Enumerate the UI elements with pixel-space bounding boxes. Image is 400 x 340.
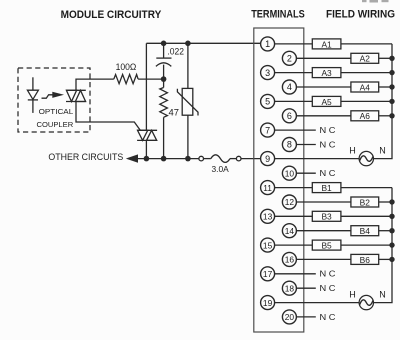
wire box B4 to field bus B bbox=[379, 230, 392, 232]
wire terminal 2 to box A2 bbox=[296, 57, 351, 59]
optical coupler dashed box bbox=[18, 68, 90, 132]
svg-text:13: 13 bbox=[263, 212, 273, 222]
wire top rail: left corner to terminal 1 bbox=[146, 42, 260, 44]
svg-text:6: 6 bbox=[287, 111, 292, 121]
svg-text:3: 3 bbox=[265, 68, 270, 78]
wire terminal 8 N.C. stub bbox=[296, 144, 316, 146]
node: bus A at A4 bbox=[389, 84, 394, 89]
terminal 13 bbox=[261, 209, 275, 223]
wire triac Q2 to bottom rail bbox=[145, 140, 147, 158]
terminal 15 bbox=[261, 238, 275, 252]
svg-text:N C: N C bbox=[320, 126, 336, 135]
cropped text fragment top right bbox=[362, 0, 389, 3]
wire box B3 to field bus B bbox=[341, 215, 392, 217]
terminal 16 bbox=[282, 252, 296, 266]
wire box A5 to field bus A bbox=[341, 100, 392, 102]
LED D1 (input diode of optical coupler) bbox=[27, 77, 38, 113]
box B6 bbox=[351, 254, 379, 264]
wire bottom rail bbox=[138, 158, 199, 160]
capacitor C1 .022 bbox=[156, 43, 172, 79]
wire Q1 bottom to triac Q2 gate bbox=[76, 102, 140, 131]
terminal 10 bbox=[282, 166, 296, 180]
terminal 3 bbox=[261, 66, 275, 80]
wire terminal 7 N.C. stub bbox=[275, 129, 316, 131]
wire left vertical: top rail down to triac Q2 bbox=[145, 43, 147, 130]
svg-text:B5: B5 bbox=[321, 241, 332, 251]
svg-text:3.0A: 3.0A bbox=[212, 165, 230, 174]
svg-text:18: 18 bbox=[285, 283, 295, 293]
svg-text:COUPLER: COUPLER bbox=[37, 120, 74, 129]
svg-text:15: 15 bbox=[263, 240, 273, 250]
svg-text:A3: A3 bbox=[321, 68, 332, 78]
svg-text:47: 47 bbox=[169, 106, 179, 117]
svg-text:8: 8 bbox=[287, 140, 292, 150]
terminal 19 bbox=[261, 296, 275, 310]
svg-text:N: N bbox=[379, 290, 386, 300]
field bus A vertical bbox=[374, 44, 393, 159]
wire box A3 to field bus A bbox=[341, 72, 392, 74]
svg-text:9: 9 bbox=[265, 154, 270, 164]
svg-text:2: 2 bbox=[287, 54, 292, 64]
svg-text:B4: B4 bbox=[360, 226, 371, 236]
wire terminal 16 to box B6 bbox=[296, 258, 351, 260]
box A4 bbox=[351, 82, 379, 92]
svg-text:N C: N C bbox=[320, 169, 336, 178]
wire box A2 to field bus A bbox=[379, 57, 392, 59]
box B2 bbox=[351, 197, 379, 207]
svg-text:A6: A6 bbox=[360, 111, 371, 121]
terminal 11 bbox=[261, 181, 275, 195]
node: bus A at A3 bbox=[389, 70, 394, 75]
svg-text:12: 12 bbox=[285, 197, 295, 207]
svg-text:7: 7 bbox=[265, 125, 270, 135]
box A6 bbox=[351, 111, 379, 121]
wire terminal 19 to AC source B bbox=[275, 302, 360, 304]
light emission arrow bbox=[42, 92, 65, 98]
svg-text:14: 14 bbox=[285, 226, 295, 236]
wire terminal 9 to AC source A bbox=[275, 158, 360, 160]
terminal 18 bbox=[282, 281, 296, 295]
node: junction C1 top on rail bbox=[161, 41, 167, 47]
svg-text:MODULE CIRCUITRY: MODULE CIRCUITRY bbox=[61, 9, 162, 21]
node: junction C1/R1/R2 bbox=[161, 76, 167, 82]
terminal 1 bbox=[261, 37, 275, 51]
resistor R1 100 ohm bbox=[114, 75, 138, 84]
wire terminal 12 to box B2 bbox=[296, 201, 351, 203]
svg-text:B6: B6 bbox=[360, 255, 371, 265]
wire box B1 to field bus B bbox=[341, 187, 392, 189]
wire terminal 1 to box A1 bbox=[275, 43, 313, 45]
box B4 bbox=[351, 226, 379, 236]
terminal block outline bbox=[254, 28, 304, 332]
svg-text:H: H bbox=[349, 290, 356, 300]
svg-text:TERMINALS: TERMINALS bbox=[251, 9, 305, 21]
arrow head other circuits bbox=[126, 154, 138, 162]
box A5 bbox=[312, 96, 341, 106]
box B3 bbox=[312, 211, 341, 221]
terminal 17 bbox=[261, 267, 275, 281]
resistor R2 47 bbox=[160, 79, 168, 159]
fuse F1 3.0A bbox=[199, 155, 261, 163]
wire box B5 to field bus B bbox=[341, 244, 392, 246]
svg-text:A4: A4 bbox=[360, 82, 371, 92]
AC source A (H to N) bbox=[359, 151, 373, 165]
wire terminal 10 N.C. stub bbox=[296, 172, 316, 174]
svg-text:100Ω: 100Ω bbox=[116, 62, 137, 72]
node: bus B at B3 bbox=[389, 214, 394, 219]
terminal 2 bbox=[282, 51, 296, 65]
wire terminal 5 to box A5 bbox=[275, 100, 313, 102]
svg-text:11: 11 bbox=[263, 183, 272, 193]
svg-text:OTHER CIRCUITS: OTHER CIRCUITS bbox=[48, 152, 123, 162]
svg-text:N C: N C bbox=[320, 313, 336, 322]
svg-text:N C: N C bbox=[320, 140, 336, 149]
svg-text:B2: B2 bbox=[360, 197, 371, 207]
terminal 12 bbox=[282, 195, 296, 209]
node: junction R2 bottom bbox=[161, 156, 167, 162]
field bus B vertical bbox=[374, 188, 393, 303]
box A3 bbox=[312, 68, 341, 78]
svg-text:10: 10 bbox=[285, 168, 295, 178]
node: junction RV1 bottom bbox=[185, 156, 191, 162]
wire terminal 20 N.C. stub bbox=[296, 316, 316, 318]
box B1 bbox=[312, 183, 341, 193]
box B5 bbox=[312, 240, 341, 250]
terminal 14 bbox=[282, 224, 296, 238]
node: bus A at A6 bbox=[389, 113, 394, 118]
svg-text:5: 5 bbox=[265, 97, 270, 107]
wire box A4 to field bus A bbox=[379, 86, 392, 88]
box A2 bbox=[351, 53, 379, 63]
svg-text:20: 20 bbox=[285, 312, 295, 322]
svg-text:N C: N C bbox=[320, 284, 336, 293]
svg-text:B1: B1 bbox=[321, 183, 332, 193]
svg-text:A5: A5 bbox=[321, 97, 332, 107]
wire R1 to node A bbox=[138, 78, 164, 80]
wire box B2 to field bus B bbox=[379, 201, 392, 203]
svg-text:A2: A2 bbox=[360, 54, 371, 64]
wire terminal 6 to box A6 bbox=[296, 115, 351, 117]
node: bus A at A2 bbox=[389, 56, 394, 61]
svg-text:OPTICAL: OPTICAL bbox=[39, 107, 74, 116]
svg-text:19: 19 bbox=[263, 298, 273, 308]
wire box A6 to field bus A bbox=[379, 115, 392, 117]
node: junction Q2 bottom bbox=[144, 156, 150, 162]
terminal 4 bbox=[282, 80, 296, 94]
node: bus B at B2 bbox=[389, 199, 394, 204]
triac Q2 bbox=[137, 130, 157, 140]
node: junction RV1 top on rail bbox=[185, 41, 191, 47]
svg-text:A1: A1 bbox=[321, 39, 332, 49]
wire terminal 13 to box B3 bbox=[275, 215, 313, 217]
wire box B6 to field bus B bbox=[379, 258, 392, 260]
photo-triac Q1 (output of optical coupler) bbox=[66, 90, 86, 101]
svg-text:4: 4 bbox=[287, 82, 292, 92]
terminal 8 bbox=[282, 138, 296, 152]
box A1 bbox=[312, 39, 341, 49]
svg-text:B3: B3 bbox=[321, 212, 332, 222]
svg-text:FIELD WIRING: FIELD WIRING bbox=[326, 9, 395, 21]
terminal 20 bbox=[282, 310, 296, 324]
node: bus B at B5 bbox=[389, 242, 394, 247]
terminal 9 bbox=[261, 152, 275, 166]
AC source B (H to N) bbox=[359, 295, 373, 309]
svg-text:H: H bbox=[349, 146, 356, 156]
svg-text:17: 17 bbox=[263, 269, 273, 279]
wire terminal 15 to box B5 bbox=[275, 244, 313, 246]
node: bus A at A5 bbox=[389, 99, 394, 104]
svg-text:N: N bbox=[379, 146, 386, 156]
wire terminal 3 to box A3 bbox=[275, 72, 313, 74]
terminal 7 bbox=[261, 123, 275, 137]
wire terminal 4 to box A4 bbox=[296, 86, 351, 88]
node: bus B at B6 bbox=[389, 257, 394, 262]
wire box A1 to field bus A bbox=[341, 43, 392, 45]
wire terminal 18 N.C. stub bbox=[296, 287, 316, 289]
terminal 5 bbox=[261, 94, 275, 108]
svg-text:N C: N C bbox=[320, 270, 336, 279]
svg-text:16: 16 bbox=[285, 255, 295, 265]
varistor RV1 bbox=[177, 43, 198, 158]
svg-text:.022: .022 bbox=[167, 47, 184, 57]
wire terminal 14 to box B4 bbox=[296, 230, 351, 232]
wire terminal 11 to box B1 bbox=[275, 187, 313, 189]
wire Q1 top to 100 ohm resistor bbox=[76, 79, 114, 90]
wire terminal 17 N.C. stub bbox=[275, 273, 316, 275]
node: bus B at B4 bbox=[389, 228, 394, 233]
terminal 6 bbox=[282, 109, 296, 123]
svg-text:1: 1 bbox=[265, 39, 270, 49]
